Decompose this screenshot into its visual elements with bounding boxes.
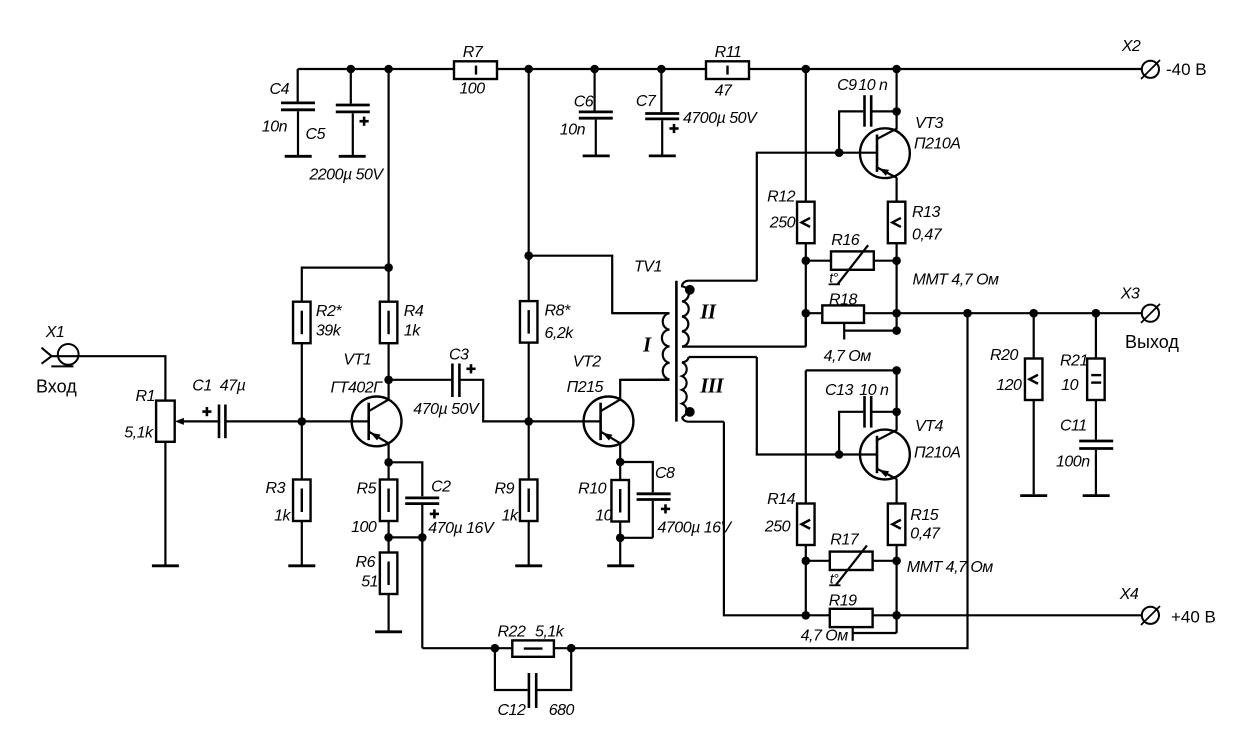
value C2 470u 16V — [428, 520, 495, 537]
wire C2 bottom lead — [421, 505, 423, 537]
wire R3 to ground — [301, 521, 303, 565]
resistor R7 — [454, 61, 497, 79]
transistor VT4 — [860, 430, 910, 480]
wire C8 bottom lead — [652, 501, 654, 538]
label R22 — [498, 624, 526, 641]
value R12 250 — [769, 215, 796, 232]
node VT2 emitter junction — [616, 458, 625, 467]
svg-text:680: 680 — [549, 702, 575, 719]
resistor R1 — [156, 401, 184, 442]
label C7 — [636, 93, 657, 110]
ground C5 — [339, 155, 366, 158]
wire R14 to R19 — [805, 545, 807, 615]
wire feedback — [422, 313, 967, 648]
svg-text:I: I — [642, 332, 652, 356]
transformer TV1 core — [675, 281, 678, 422]
terminal X2 — [1141, 60, 1160, 79]
svg-text:-40 В: -40 В — [1166, 60, 1207, 79]
wire R13 to output — [895, 243, 897, 330]
svg-text:R14: R14 — [767, 491, 795, 508]
value R22 5,1k — [535, 624, 565, 641]
label R7 — [463, 44, 484, 61]
wire C3 to VT2 base — [461, 380, 602, 422]
resistor R14 — [797, 504, 815, 546]
svg-text:10n: 10n — [560, 121, 586, 138]
value R1 5,1k — [124, 425, 154, 442]
svg-text:+40 В: +40 В — [1171, 608, 1216, 627]
svg-text:4700µ 50V: 4700µ 50V — [683, 110, 758, 127]
node R16 left junction — [802, 256, 811, 265]
svg-text:R11: R11 — [715, 44, 742, 61]
node R21 junction — [1092, 309, 1101, 318]
wire winding II to R18 node — [805, 313, 807, 346]
svg-text:100: 100 — [351, 519, 377, 536]
svg-text:R6: R6 — [356, 554, 376, 571]
svg-text:R20: R20 — [990, 347, 1018, 364]
wire R4 to collector node — [388, 343, 390, 380]
label R18 — [829, 292, 857, 309]
svg-text:X1: X1 — [45, 324, 65, 341]
svg-text:R19: R19 — [829, 593, 857, 610]
transistor VT2 — [584, 397, 634, 447]
node VT1 emitter junction — [384, 458, 393, 467]
label C11 — [1060, 417, 1087, 434]
value R2 39k — [316, 323, 342, 340]
svg-text:1k: 1k — [404, 323, 421, 340]
wire winding III to VT4 base — [757, 357, 877, 455]
node rail-C7 junction — [657, 65, 666, 74]
node VT2 base junction — [524, 417, 533, 426]
wire R16 left lead — [806, 260, 831, 262]
svg-text:R16: R16 — [831, 232, 859, 249]
ground C7 — [649, 154, 676, 157]
capacitor C3 — [452, 364, 475, 398]
value R19 4,7 Om — [801, 627, 849, 644]
wire VT1 collector — [388, 380, 390, 400]
capacitor C2 — [405, 498, 439, 519]
node R10-C8 junction — [616, 534, 625, 543]
label R16 — [831, 232, 859, 249]
svg-text:П215: П215 — [567, 379, 604, 396]
value R10 10 — [595, 508, 612, 525]
svg-text:Выход: Выход — [1125, 332, 1179, 352]
node R18 tap junction — [892, 326, 901, 335]
svg-text:III: III — [699, 374, 724, 398]
svg-text:t°: t° — [829, 270, 838, 286]
svg-text:II: II — [699, 300, 717, 324]
label X1 — [45, 324, 65, 341]
value VT1 GT402G — [331, 379, 384, 396]
svg-text:R3: R3 — [266, 480, 286, 497]
node VT1 collector junction — [384, 376, 393, 385]
value R9 1k — [502, 508, 519, 525]
label R1 — [136, 388, 155, 405]
resistor R6 — [380, 553, 398, 595]
wire emitter to C2 — [389, 462, 423, 496]
svg-text:4700µ 16V: 4700µ 16V — [658, 519, 733, 536]
svg-text:10n: 10n — [262, 119, 288, 136]
svg-text:R5: R5 — [357, 481, 377, 498]
value C6 10n — [560, 121, 586, 138]
label C5 — [306, 126, 326, 143]
svg-text:ММТ 4,7 Ом: ММТ 4,7 Ом — [907, 559, 994, 576]
node R5-C2 junction a — [384, 533, 393, 542]
wire R5 to node — [388, 521, 390, 553]
svg-text:1k: 1k — [274, 508, 291, 525]
svg-text:X4: X4 — [1119, 586, 1139, 603]
value R13 0,47 — [912, 227, 943, 244]
label R12 — [767, 189, 795, 206]
label Vhod input — [36, 376, 77, 396]
wire R15 to R19 — [895, 545, 897, 633]
svg-text:C6: C6 — [574, 93, 594, 110]
svg-text:C12: C12 — [498, 702, 526, 719]
svg-text:R21: R21 — [1060, 353, 1088, 370]
svg-text:t°: t° — [830, 571, 839, 587]
node feedback junction — [963, 309, 972, 318]
capacitor C8 — [637, 494, 671, 514]
svg-text:C13: C13 — [825, 382, 853, 399]
capacitor C1 — [202, 405, 225, 439]
wire C12 left lead — [495, 648, 528, 690]
node rail-R8 junction — [524, 65, 533, 74]
node R17 right junction — [892, 557, 901, 566]
label C8 — [655, 465, 675, 482]
svg-text:VT4: VT4 — [915, 418, 943, 435]
wire VT4 collector — [895, 370, 897, 430]
label R17 t deg — [829, 571, 840, 587]
node X4-R19 left junction — [802, 611, 811, 620]
ground C6 — [583, 154, 610, 157]
wire R19 tap — [853, 627, 897, 641]
label C4 — [270, 81, 290, 98]
label R8 — [545, 303, 571, 320]
label R9 — [495, 481, 515, 498]
resistor R18 — [822, 305, 864, 323]
svg-text:R17: R17 — [830, 531, 859, 548]
svg-text:ГТ402Г: ГТ402Г — [331, 379, 384, 396]
ground R20 — [1020, 494, 1047, 497]
svg-text:R7: R7 — [463, 44, 484, 61]
node output R13 junction — [892, 309, 901, 318]
resistor R15 — [888, 504, 906, 546]
value R17 MMT 4,7 Om — [907, 559, 994, 576]
ground R1 — [152, 564, 179, 567]
wire R1 wiper — [183, 420, 218, 422]
transformer winding III — [682, 357, 757, 422]
label C3 — [449, 347, 469, 364]
transistor VT1 — [352, 397, 402, 447]
label R2 — [316, 303, 342, 320]
wire C9 left lead — [839, 111, 863, 152]
wire R10 bottom — [619, 522, 621, 565]
capacitor C7 — [645, 114, 679, 134]
svg-text:R22: R22 — [498, 624, 526, 641]
label C13 — [825, 382, 853, 399]
wire C5 bottom lead — [352, 113, 354, 155]
label R19 — [829, 593, 857, 610]
svg-text:10 n: 10 n — [859, 382, 889, 399]
wire R6 to ground — [388, 594, 390, 630]
wire R1 to ground — [164, 442, 166, 565]
value C13 10n — [859, 382, 889, 399]
label R10 — [578, 481, 606, 498]
svg-text:TV1: TV1 — [634, 259, 662, 276]
wire R9 to ground — [528, 521, 530, 565]
capacitor C6 — [579, 112, 613, 118]
svg-text:C8: C8 — [655, 465, 675, 482]
value C5 2200u 50V — [308, 167, 384, 184]
svg-text:10: 10 — [595, 508, 612, 525]
label C9 — [837, 77, 857, 94]
wire R5-C2 link — [389, 536, 423, 538]
resistor R21 — [1087, 359, 1105, 401]
svg-text:C5: C5 — [306, 126, 326, 143]
wire VT3 collector — [895, 69, 897, 130]
node C9 collector junction — [892, 107, 901, 116]
svg-text:VT3: VT3 — [915, 115, 943, 132]
wire -40V top rail — [298, 68, 1142, 70]
wire C5 top lead — [350, 69, 352, 104]
wire R2 top link — [302, 268, 389, 302]
resistor R19 — [830, 609, 873, 627]
svg-text:R15: R15 — [910, 507, 938, 524]
winding II polarity dot — [685, 285, 695, 295]
ground R9 — [515, 564, 542, 567]
wire R21 to C11 — [1095, 400, 1097, 440]
wire C11 to ground — [1095, 450, 1097, 494]
svg-text:10: 10 — [1061, 377, 1078, 394]
label TV1 — [634, 259, 662, 276]
resistor R12 — [797, 202, 815, 244]
svg-text:X3: X3 — [1120, 286, 1140, 303]
wire VT4 emitter — [895, 479, 897, 504]
svg-text:R10: R10 — [578, 481, 606, 498]
resistor R2 — [293, 302, 311, 344]
node R8 top junction — [524, 251, 533, 260]
label R21 — [1060, 353, 1088, 370]
svg-text:10 n: 10 n — [858, 77, 888, 94]
wire C2 node to feedback — [421, 537, 423, 648]
svg-text:R4: R4 — [404, 303, 424, 320]
wire C4 bottom lead — [297, 111, 299, 155]
terminal X1 — [42, 344, 79, 366]
thermistor R17 — [830, 545, 873, 584]
value R20 120 — [996, 377, 1022, 394]
label C2 — [431, 479, 451, 496]
wire VT2 collector — [620, 380, 669, 400]
label R3 — [266, 480, 286, 497]
svg-text:6,2k: 6,2k — [545, 325, 575, 342]
svg-text:R18: R18 — [829, 292, 857, 309]
value R16 MMT 4,7 Om — [913, 272, 1000, 289]
wire R18 left lead — [806, 312, 823, 314]
wire C7 bottom lead — [661, 120, 663, 154]
ground C4 — [285, 155, 312, 158]
wire C6 top lead — [593, 69, 595, 111]
transistor VT3 — [860, 128, 910, 178]
value R3 1k — [274, 508, 291, 525]
node rail-R4 junction — [384, 65, 393, 74]
label R14 — [767, 491, 795, 508]
svg-text:C11: C11 — [1060, 417, 1087, 434]
ground C11 — [1083, 494, 1110, 497]
wire emitter to C8 — [620, 462, 653, 492]
svg-text:C2: C2 — [431, 479, 451, 496]
wire C8 bottom link — [620, 537, 653, 539]
svg-text:R8*: R8* — [545, 303, 571, 320]
svg-text:R13: R13 — [912, 204, 940, 221]
label X2 — [1121, 38, 1141, 55]
label C6 — [574, 93, 594, 110]
value VT3 P210A — [914, 136, 960, 153]
label winding III — [699, 374, 724, 398]
node R16 right junction — [892, 256, 901, 265]
wire R8 to R9 — [528, 343, 530, 480]
node C13 base junction — [835, 450, 844, 459]
wire C6 bottom lead — [595, 120, 597, 155]
node R18 left junction — [802, 309, 811, 318]
wire C7 top lead — [660, 69, 662, 112]
node VT1 base junction — [298, 417, 307, 426]
value C7 4700u 50V — [683, 110, 758, 127]
wire C1 to VT1 base — [227, 420, 302, 422]
node R2 link junction — [384, 263, 393, 272]
svg-text:R2*: R2* — [316, 303, 342, 320]
svg-text:R9: R9 — [495, 481, 515, 498]
svg-text:4,7 Ом: 4,7 Ом — [801, 627, 849, 644]
capacitor C5 — [336, 105, 370, 126]
label VT4 — [915, 418, 943, 435]
label +40 V net — [1171, 608, 1216, 627]
label R13 — [912, 204, 940, 221]
svg-text:Вход: Вход — [36, 376, 77, 396]
wire R12 to R16 — [805, 243, 807, 346]
wire VT1 collector to C3 — [389, 379, 451, 381]
label R6 — [356, 554, 376, 571]
resistor R11 — [706, 61, 749, 79]
label VT1 — [343, 352, 371, 369]
wire C13 left lead — [839, 412, 863, 455]
value R21 10 — [1061, 377, 1078, 394]
winding III polarity dot — [685, 407, 695, 417]
svg-text:5,1k: 5,1k — [124, 425, 154, 442]
resistor R5 — [380, 480, 398, 522]
label VT3 — [915, 115, 943, 132]
resistor R13 — [888, 202, 906, 244]
value C12 680 — [549, 702, 575, 719]
resistor R9 — [520, 480, 538, 522]
label R15 — [910, 507, 938, 524]
wire R18 tap — [844, 323, 896, 340]
resistor R8 — [520, 301, 538, 343]
svg-text:C4: C4 — [270, 81, 290, 98]
svg-text:X2: X2 — [1121, 38, 1141, 55]
value R4 1k — [404, 323, 421, 340]
label R16 t deg — [829, 270, 840, 286]
terminal X4 — [1141, 606, 1160, 625]
wire R20 to ground — [1033, 400, 1035, 494]
node C13 collector junction — [892, 408, 901, 417]
value VT4 P210A — [914, 445, 960, 462]
wire rail to R8 — [528, 69, 530, 301]
value R7 100 — [459, 81, 485, 98]
value C8 4700u 16V — [658, 519, 733, 536]
resistor R20 — [1025, 359, 1043, 401]
label C12 — [498, 702, 526, 719]
value R5 100 — [351, 519, 377, 536]
svg-text:VT2: VT2 — [573, 354, 601, 371]
wire VT2 emitter — [619, 443, 621, 480]
wire C12 right lead — [538, 648, 572, 690]
value VT2 P215 — [567, 379, 604, 396]
label X4 — [1119, 586, 1139, 603]
wire C4 top lead — [297, 69, 299, 102]
svg-text:47µ: 47µ — [220, 378, 246, 395]
resistor R10 — [611, 480, 629, 522]
label winding II — [699, 300, 717, 324]
wire R17 left lead — [806, 560, 830, 562]
node rail-C5 junction — [347, 65, 356, 74]
value C4 10n — [262, 119, 288, 136]
ground R3 — [288, 564, 315, 567]
svg-text:C7: C7 — [636, 93, 657, 110]
transformer winding I — [612, 313, 669, 380]
label R20 — [990, 347, 1018, 364]
label R11 — [715, 44, 742, 61]
value R11 47 — [715, 83, 733, 100]
wire VT1 base — [302, 420, 369, 422]
label Vyhod output — [1125, 332, 1179, 352]
wire winding II to VT3 base — [757, 153, 877, 281]
wire winding III to X4 line — [724, 422, 1142, 616]
svg-text:П210А: П210А — [914, 136, 960, 153]
node R22 left junction — [491, 644, 500, 653]
value R8 6,2k — [545, 325, 575, 342]
node rail-VT3 junction — [892, 65, 901, 74]
wire C9 right lead — [872, 110, 896, 112]
label winding I — [642, 332, 652, 356]
wire output to R21 — [1095, 313, 1097, 358]
svg-text:47: 47 — [715, 83, 733, 100]
transformer winding II — [682, 281, 806, 347]
value R15 0,47 — [910, 526, 941, 543]
svg-text:C9: C9 — [837, 77, 857, 94]
capacitor C13 — [865, 396, 872, 428]
node rail-C6 junction — [590, 65, 599, 74]
wire R17 right lead — [873, 560, 897, 562]
label R5 — [357, 481, 377, 498]
terminal X3 — [1141, 304, 1160, 323]
resistor R4 — [380, 302, 398, 344]
capacitor C12 — [529, 673, 536, 708]
value R14 250 — [764, 519, 791, 536]
node R22 right junction — [567, 644, 576, 653]
svg-text:C3: C3 — [449, 347, 469, 364]
node X4-R19 right junction — [892, 611, 901, 620]
wire VT3 emitter — [895, 177, 897, 201]
svg-text:0,47: 0,47 — [912, 227, 943, 244]
wire C13 right lead — [872, 411, 896, 413]
value C9 10n — [858, 77, 888, 94]
wire R16 right lead — [874, 260, 897, 262]
resistor R22 — [512, 640, 554, 656]
wire X1 to R1 — [52, 356, 166, 400]
node R5-C2 junction b — [418, 533, 427, 542]
ground R10 — [607, 564, 634, 567]
svg-text:VT1: VT1 — [343, 352, 371, 369]
wire output line — [897, 312, 1142, 314]
